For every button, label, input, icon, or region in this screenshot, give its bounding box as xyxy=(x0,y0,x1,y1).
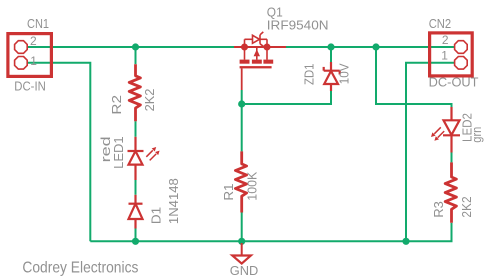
svg-text:10V: 10V xyxy=(337,63,352,84)
transistor Q1 channel stubs xyxy=(245,47,268,60)
resistor R2 xyxy=(129,64,140,121)
wire top rail right (Q1 to CN2 pin2) xyxy=(286,46,455,48)
connector CN1 body xyxy=(8,34,52,77)
connector CN2 body xyxy=(430,33,473,76)
svg-text:GND: GND xyxy=(230,263,258,278)
svg-text:DC-IN: DC-IN xyxy=(14,79,46,93)
LED LED2 light arrows xyxy=(434,127,444,137)
zener diode ZD1 xyxy=(324,62,340,91)
svg-text:100K: 100K xyxy=(245,171,260,200)
svg-text:ZD1: ZD1 xyxy=(301,64,316,86)
svg-text:R3: R3 xyxy=(431,201,446,217)
node junction dot LED2 feed xyxy=(372,43,379,50)
wire CN2 pin1 to bottom rail xyxy=(406,63,455,242)
resistor R1 xyxy=(235,151,246,212)
svg-text:R2: R2 xyxy=(109,95,124,115)
wire R2 to LED1 xyxy=(135,121,137,137)
node junction dot ZD1 top xyxy=(327,43,334,50)
transistor Q1 substrate arrow xyxy=(254,49,260,56)
node junction dot CN2 return xyxy=(402,238,409,245)
wire R2 top xyxy=(135,47,137,64)
svg-text:D1: D1 xyxy=(149,207,164,224)
wire output to LED2 xyxy=(376,47,452,107)
diode D1 xyxy=(129,195,143,229)
connector CN1 pin 1 pad xyxy=(15,57,28,70)
wire LED1 to D1 xyxy=(135,180,137,195)
svg-text:LED1: LED1 xyxy=(111,136,126,169)
svg-text:1N4148: 1N4148 xyxy=(166,178,181,224)
node junction dot R2 top xyxy=(132,43,139,50)
connector CN2 pin 1 pad xyxy=(455,57,468,70)
svg-text:2: 2 xyxy=(30,34,37,48)
svg-text:Codrey Electronics: Codrey Electronics xyxy=(22,260,138,277)
svg-text:grn: grn xyxy=(469,127,484,143)
svg-text:2: 2 xyxy=(442,33,449,47)
wire CN1 pin1 to left drop xyxy=(27,63,90,242)
wire bottom rail xyxy=(90,223,451,242)
LED LED1 xyxy=(128,137,144,180)
node junction dot gate xyxy=(238,100,245,107)
svg-text:DC-OUT: DC-OUT xyxy=(429,76,479,90)
wire top rail left (CN1 pin2 to Q1) xyxy=(27,46,234,48)
svg-text:CN1: CN1 xyxy=(27,17,49,31)
wire ZD1 top xyxy=(330,47,332,62)
transistor Q1 gate pin xyxy=(241,68,243,90)
svg-text:CN2: CN2 xyxy=(429,17,452,31)
svg-text:1: 1 xyxy=(30,54,37,68)
svg-text:R1: R1 xyxy=(221,184,236,201)
wire LED2 to R3 xyxy=(451,153,453,163)
svg-text:2K2: 2K2 xyxy=(459,196,474,217)
connector CN1 pin 2 pad xyxy=(15,41,28,54)
wire R1 to bottom rail xyxy=(241,213,243,242)
transistor Q1 channel bars xyxy=(240,60,274,64)
LED LED2 xyxy=(443,107,460,153)
transistor Q1 source dot xyxy=(241,44,248,51)
ground symbol xyxy=(241,243,243,256)
resistor R3 xyxy=(445,162,456,222)
wire gate node to ZD1 bottom xyxy=(242,91,331,104)
svg-text:IRF9540N: IRF9540N xyxy=(267,17,329,32)
wire D1 to bottom rail xyxy=(135,229,137,242)
svg-text:2K2: 2K2 xyxy=(142,89,157,112)
node junction dot GND xyxy=(238,238,245,245)
transistor Q1 body diode xyxy=(245,32,268,48)
transistor Q1 drain-source wire xyxy=(234,46,286,48)
svg-text:1: 1 xyxy=(441,49,448,63)
transistor Q1 gate bar xyxy=(240,66,272,68)
LED LED1 light arrows xyxy=(146,150,156,160)
node junction dot D1 bottom xyxy=(132,238,139,245)
connector CN2 pin 2 pad xyxy=(455,41,468,54)
transistor Q1 drain dot xyxy=(264,44,271,51)
wire gate node to R1 xyxy=(241,90,243,151)
